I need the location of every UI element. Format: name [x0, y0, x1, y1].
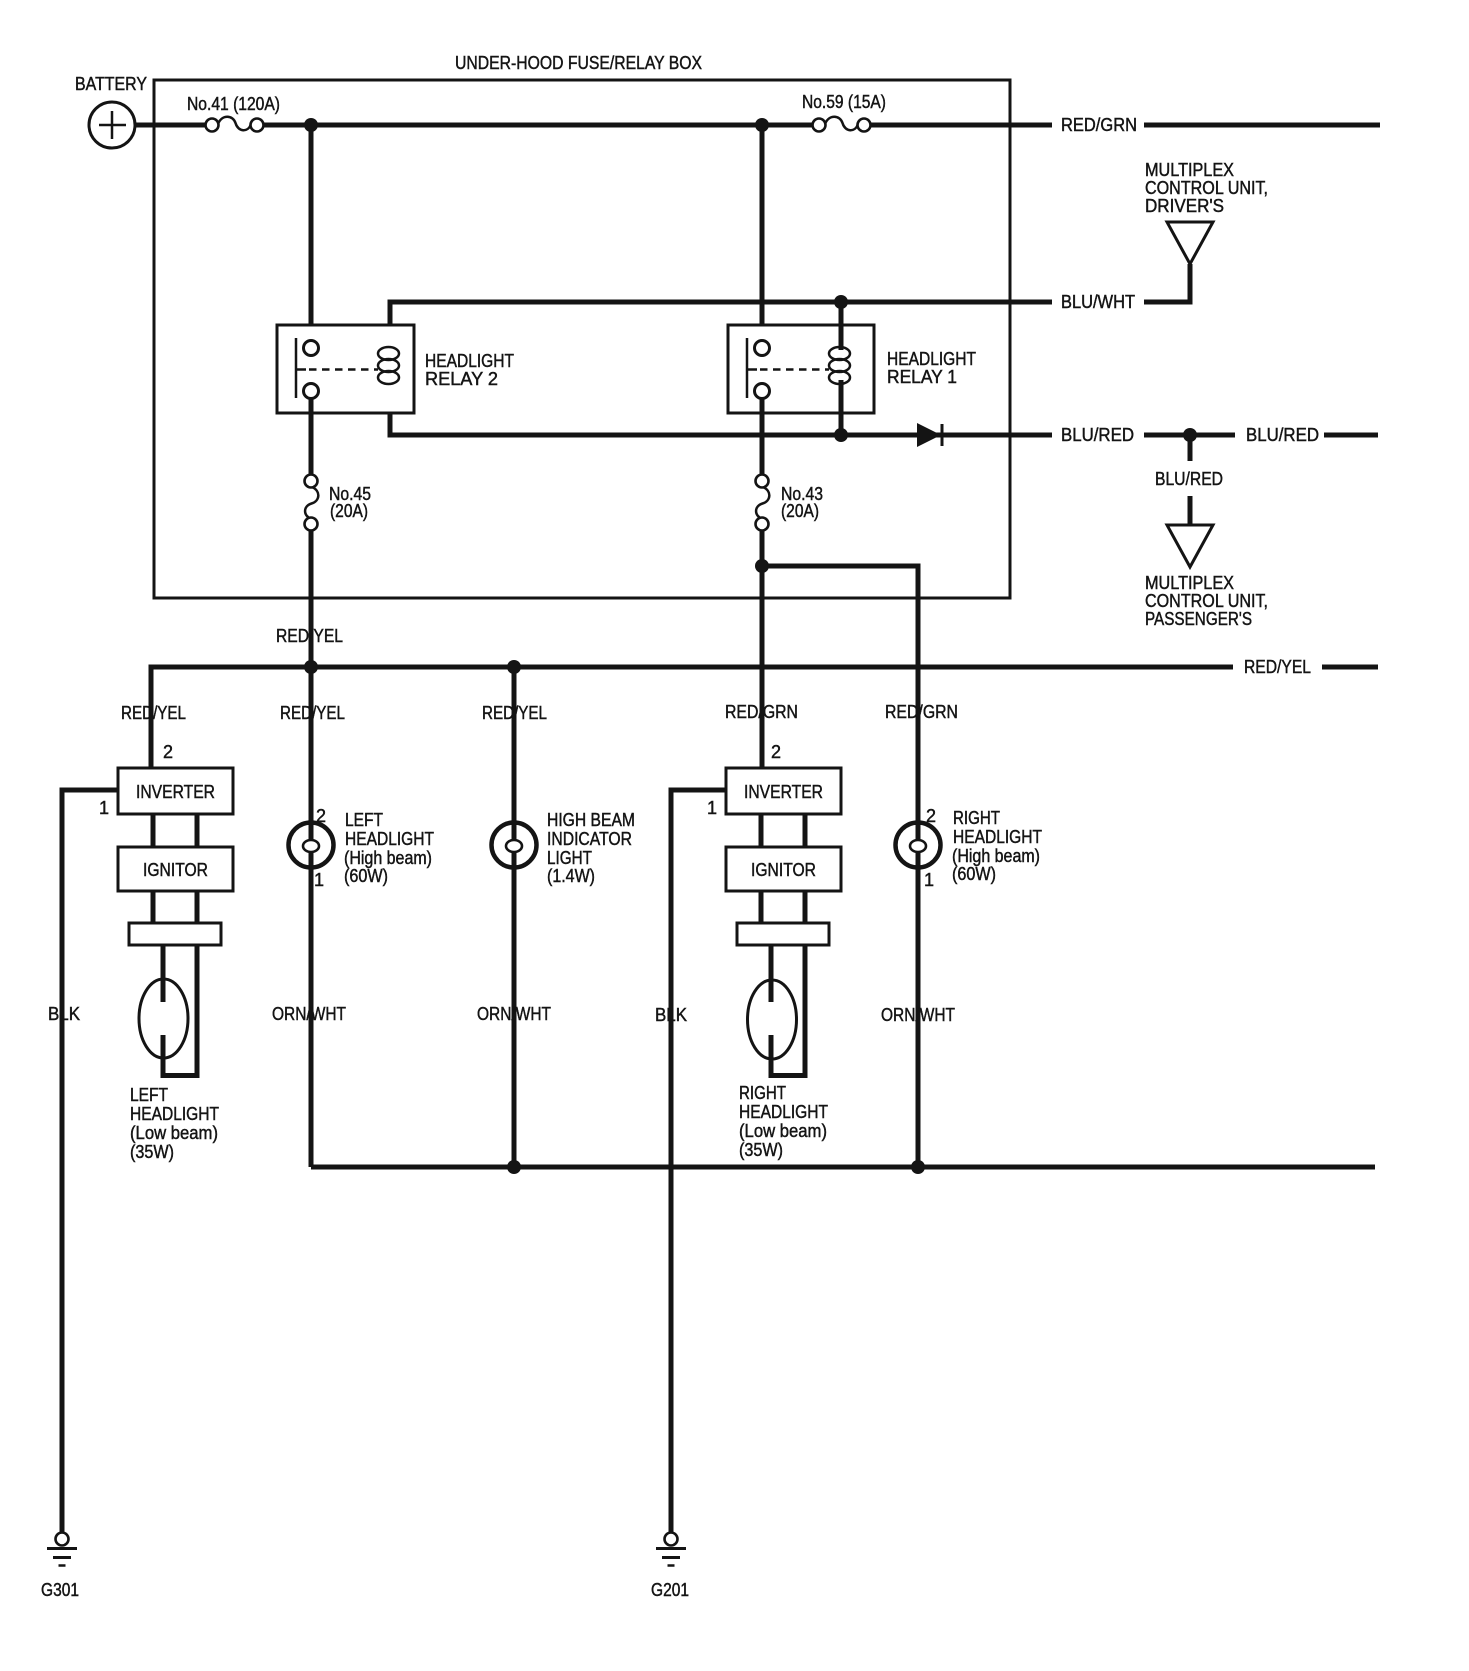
wire right low beam loop [771, 945, 805, 1078]
svg-text:G301: G301 [41, 1580, 79, 1600]
svg-text:INVERTER: INVERTER [136, 782, 215, 802]
svg-text:1: 1 [924, 870, 934, 890]
svg-text:ORN/WHT: ORN/WHT [272, 1004, 346, 1024]
junction on main line at relay 2 branch [304, 118, 318, 132]
svg-text:INDICATOR: INDICATOR [547, 829, 632, 849]
svg-text:RED/YEL: RED/YEL [1244, 657, 1311, 677]
wire RED/YEL down to high beam indicator [512, 667, 517, 823]
wire RED/GRN branch right and down to right headlight high beam [762, 566, 918, 823]
battery BATTERY [75, 74, 147, 148]
wire BLU/RED down to passenger's multiplex unit [1188, 435, 1193, 530]
svg-text:(High beam): (High beam) [952, 846, 1040, 866]
junction RED/YEL at indicator branch [507, 660, 521, 674]
inverter right [726, 768, 841, 814]
headlight relay 1 [728, 302, 976, 435]
wire battery to fuse No.41 [134, 123, 206, 128]
wire fuse No.43 down RED/GRN to right inverter [760, 530, 765, 768]
svg-text:1: 1 [314, 870, 324, 890]
svg-text:LEFT: LEFT [345, 810, 383, 830]
wire left inverter pin1 to BLK ground run [62, 790, 118, 1532]
wire ORN/WHT bottom bus [311, 1165, 1375, 1170]
junction on main line at relay 1 branch [755, 118, 769, 132]
svg-text:(20A): (20A) [781, 501, 819, 521]
svg-text:HEADLIGHT: HEADLIGHT [739, 1102, 828, 1122]
wire BLU/RED dash far right [1324, 433, 1378, 438]
wire RED/YEL dash far right [1322, 665, 1378, 670]
right headlight low beam bulb [739, 945, 828, 1160]
svg-text:(35W): (35W) [130, 1142, 174, 1162]
svg-text:2: 2 [771, 742, 781, 762]
svg-text:RED/YEL: RED/YEL [280, 703, 345, 723]
svg-text:RELAY 1: RELAY 1 [887, 367, 957, 387]
junction RED/YEL at left headlight branch [304, 660, 318, 674]
wire fuse No.41 to junction and to fuse No.59 [263, 123, 813, 128]
diode D1 [917, 423, 942, 447]
svg-text:MULTIPLEX: MULTIPLEX [1145, 160, 1234, 180]
wire RED/GRN continuation right [1144, 123, 1380, 128]
wire right inverter pin1 to BLK ground run [671, 790, 726, 1532]
ground G301 [41, 1533, 79, 1601]
svg-text:CONTROL UNIT,: CONTROL UNIT, [1145, 591, 1268, 611]
wire BLU/WHT to driver's multiplex unit [1144, 264, 1190, 302]
svg-text:RIGHT: RIGHT [953, 808, 1000, 828]
svg-text:(1.4W): (1.4W) [547, 866, 595, 886]
junction No.43 output branch [755, 559, 769, 573]
wire relay 2 switch to fuse No.45 [309, 398, 314, 475]
junction bottom bus at right headlight [911, 1160, 925, 1174]
wire ORN/WHT right headlight down to bus [916, 867, 921, 1167]
svg-text:MULTIPLEX: MULTIPLEX [1145, 573, 1234, 593]
svg-text:BLU/RED: BLU/RED [1246, 425, 1319, 445]
svg-text:HEADLIGHT: HEADLIGHT [953, 827, 1042, 847]
svg-text:(20A): (20A) [330, 501, 368, 521]
svg-text:HEADLIGHT: HEADLIGHT [130, 1104, 219, 1124]
svg-text:RED/GRN: RED/GRN [885, 702, 958, 722]
junction bottom bus at indicator [507, 1160, 521, 1174]
svg-text:CONTROL UNIT,: CONTROL UNIT, [1145, 178, 1268, 198]
svg-text:BLU/RED: BLU/RED [1155, 469, 1223, 489]
svg-text:BLU/WHT: BLU/WHT [1061, 292, 1135, 312]
ignitor left [118, 847, 233, 891]
svg-text:LIGHT: LIGHT [547, 848, 592, 868]
svg-text:ORN/WHT: ORN/WHT [477, 1004, 551, 1024]
svg-text:BLK: BLK [655, 1005, 687, 1025]
svg-text:RELAY 2: RELAY 2 [425, 369, 498, 389]
svg-text:BLU/RED: BLU/RED [1061, 425, 1134, 445]
svg-text:1: 1 [99, 798, 109, 818]
svg-text:No.41 (120A): No.41 (120A) [187, 94, 280, 114]
ground G201 [651, 1533, 689, 1601]
svg-text:PASSENGER'S: PASSENGER'S [1145, 609, 1252, 629]
inverter left [118, 768, 233, 814]
wire left ignitor to socket [153, 891, 197, 923]
socket left low beam [129, 923, 221, 945]
svg-text:(Low beam): (Low beam) [739, 1121, 827, 1141]
svg-text:HIGH BEAM: HIGH BEAM [547, 810, 635, 830]
headlight relay 2 [277, 325, 514, 413]
svg-text:BLK: BLK [48, 1004, 80, 1024]
left headlight low beam bulb [130, 945, 219, 1162]
wire fuse No.45 down RED/YEL [309, 530, 314, 823]
wire right inverter to ignitor [761, 814, 805, 847]
svg-text:2: 2 [163, 742, 173, 762]
junction relay 1 coil bottom on BLU/RED [834, 428, 848, 442]
svg-text:(High beam): (High beam) [344, 848, 432, 868]
svg-text:RED/YEL: RED/YEL [276, 626, 343, 646]
socket right low beam [737, 923, 829, 945]
fuse No.45 (20A) [305, 475, 372, 531]
svg-text:IGNITOR: IGNITOR [143, 860, 208, 880]
svg-text:HEADLIGHT: HEADLIGHT [345, 829, 434, 849]
svg-text:LEFT: LEFT [130, 1085, 168, 1105]
wire BLU/RED right segment [1144, 433, 1235, 438]
svg-text:ORN/WHT: ORN/WHT [881, 1005, 955, 1025]
junction BLU/RED branch [1183, 428, 1197, 442]
wire ORN/WHT indicator down to bus [512, 867, 517, 1167]
svg-text:(Low beam): (Low beam) [130, 1123, 218, 1143]
fuse No.41 (120A) [187, 94, 280, 132]
wire right ignitor to socket [761, 891, 805, 923]
under-hood fuse/relay box [154, 53, 1010, 598]
left headlight high beam bulb [289, 810, 435, 886]
wire RED/YEL bus [151, 667, 1233, 768]
junction relay 1 coil top on BLU/WHT [834, 295, 848, 309]
svg-text:IGNITOR: IGNITOR [751, 860, 816, 880]
svg-text:RED/GRN: RED/GRN [725, 702, 798, 722]
svg-text:RED/GRN: RED/GRN [1061, 115, 1137, 135]
svg-text:G201: G201 [651, 1580, 689, 1600]
multiplex control unit passenger's [1145, 525, 1268, 629]
fuse No.59 (15A) [802, 92, 886, 132]
svg-text:BATTERY: BATTERY [75, 74, 147, 94]
wire relay 1 switch to fuse No.43 [760, 398, 765, 475]
fuse No.43 (20A) [756, 475, 824, 531]
wire fuse No.59 to box edge, RED/GRN net [870, 123, 1052, 128]
svg-text:(60W): (60W) [344, 866, 388, 886]
svg-text:1: 1 [707, 798, 717, 818]
svg-text:(60W): (60W) [952, 864, 996, 884]
svg-text:(35W): (35W) [739, 1140, 783, 1160]
svg-text:RED/YEL: RED/YEL [482, 703, 547, 723]
svg-text:HEADLIGHT: HEADLIGHT [425, 351, 514, 371]
svg-text:DRIVER'S: DRIVER'S [1145, 196, 1224, 216]
wire left low beam loop [163, 945, 197, 1078]
svg-text:RIGHT: RIGHT [739, 1083, 786, 1103]
right headlight high beam bulb [896, 808, 1043, 884]
wire main line down to relay 1 switch [760, 125, 765, 341]
svg-text:RED/YEL: RED/YEL [121, 703, 186, 723]
svg-text:INVERTER: INVERTER [744, 782, 823, 802]
wire BLU/WHT from relay 2 coil to right [390, 302, 1052, 350]
svg-text:HEADLIGHT: HEADLIGHT [887, 349, 976, 369]
wire main line down to relay 2 switch [309, 125, 314, 341]
svg-text:UNDER-HOOD FUSE/RELAY BOX: UNDER-HOOD FUSE/RELAY BOX [455, 53, 702, 73]
wire ORN/WHT left headlight down to bus [309, 867, 314, 1167]
ignitor right [726, 847, 841, 891]
high beam indicator light bulb [492, 810, 636, 886]
multiplex control unit driver's [1145, 160, 1268, 264]
wire BLU/RED from relay 2 coil bottom, to diode and right [390, 380, 1052, 435]
wire left inverter to ignitor [153, 814, 197, 847]
svg-text:No.59 (15A): No.59 (15A) [802, 92, 886, 112]
